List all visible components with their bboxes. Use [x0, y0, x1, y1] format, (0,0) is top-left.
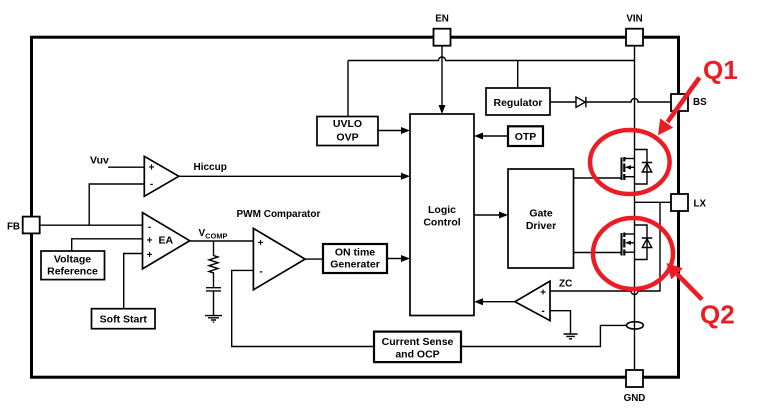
current sensor: [627, 322, 644, 329]
pin GND: [626, 370, 643, 387]
wire LX to ZC with hop over VIN line: [550, 202, 660, 294]
wire VIN main vertical line: [634, 46, 636, 370]
svg-text:Q2: Q2: [700, 300, 735, 330]
svg-text:Vuv: Vuv: [90, 155, 109, 167]
svg-text:-: -: [148, 222, 151, 233]
annotation arrow Q2: [677, 274, 702, 300]
transistor Q2: [622, 225, 653, 260]
wire Current Sense to sensor: [461, 325, 627, 346]
wire LX to switch node: [635, 201, 672, 203]
svg-text:UVLO: UVLO: [333, 118, 362, 130]
block Gate Driver: [508, 169, 574, 268]
pin EN: [434, 29, 451, 46]
pin VIN: [626, 29, 643, 46]
svg-text:Hiccup: Hiccup: [194, 162, 227, 173]
wire capacitor to ground: [213, 291, 215, 316]
svg-text:Current Sense: Current Sense: [382, 336, 454, 348]
svg-text:+: +: [147, 250, 153, 261]
wire Regulator to BS with hop over VIN line: [550, 99, 671, 102]
svg-text:-: -: [150, 179, 153, 190]
block Regulator: [486, 88, 550, 115]
wire Voltage Reference to EA: [72, 239, 143, 251]
block Logic Control: [410, 114, 474, 316]
block Voltage Reference: [41, 251, 105, 280]
svg-text:-: -: [259, 267, 262, 278]
svg-text:and OCP: and OCP: [395, 349, 439, 361]
svg-text:OTP: OTP: [515, 131, 537, 143]
svg-text:ZC: ZC: [559, 279, 572, 290]
wire PWM to ON time Generater: [305, 258, 323, 260]
wire Gate Driver to Q2 gate: [574, 252, 622, 254]
svg-text:BS: BS: [693, 97, 707, 108]
wire rail to Regulator: [517, 61, 519, 89]
op-amp EA: [143, 213, 190, 269]
pin BS: [671, 94, 688, 111]
svg-text:Gate: Gate: [529, 208, 553, 220]
op-amp ZC comparator: [515, 281, 550, 321]
svg-text:Voltage: Voltage: [54, 254, 91, 266]
ground (compensation): [205, 316, 222, 323]
wire ZC to Logic Control: [483, 301, 515, 303]
svg-text:+: +: [540, 287, 546, 298]
svg-text:GND: GND: [624, 393, 646, 404]
wire OTP to Logic Control: [483, 135, 508, 137]
resistor R1: [209, 241, 218, 288]
IC boundary: [32, 37, 679, 377]
transistor Q1: [622, 150, 653, 185]
svg-text:Generater: Generater: [330, 259, 380, 271]
svg-text:EA: EA: [159, 235, 174, 247]
block ON time Generater: [323, 244, 387, 273]
annotation arrow Q1: [668, 78, 700, 123]
wire FB to EA: [40, 224, 143, 226]
wire EA to PWM comparator: [190, 240, 254, 242]
svg-text:COMP: COMP: [205, 232, 227, 241]
diode D1: [576, 97, 586, 107]
wire PWM minus feedback: [232, 270, 374, 346]
wire top rail from VIN with hop over EN line: [348, 57, 635, 60]
wire Soft Start to EA: [124, 254, 143, 310]
op-amp Hiccup comparator: [144, 156, 179, 196]
ground (ZC): [564, 334, 578, 339]
svg-text:Q1: Q1: [703, 55, 738, 85]
wire Logic Control to Gate Driver: [474, 214, 499, 216]
svg-text:Control: Control: [423, 217, 460, 229]
svg-text:PWM Comparator: PWM Comparator: [237, 209, 321, 220]
block Current Sense and OCP: [374, 332, 461, 363]
svg-text:+: +: [147, 235, 153, 246]
svg-text:+: +: [149, 163, 155, 174]
svg-text:ON time: ON time: [335, 247, 375, 259]
svg-text:Reference: Reference: [47, 266, 98, 278]
svg-text:Logic: Logic: [428, 204, 456, 216]
svg-text:LX: LX: [694, 199, 707, 210]
wire UVLO to Logic Control: [378, 130, 401, 132]
svg-text:OVP: OVP: [336, 131, 358, 143]
wire Hiccup to Logic Control: [179, 175, 401, 177]
pin LX: [671, 194, 688, 211]
block OTP: [508, 126, 543, 146]
svg-text:+: +: [258, 238, 264, 249]
wire ON time Generater to Logic Control: [387, 258, 401, 260]
block UVLO OVP: [317, 117, 378, 146]
wire ZC minus to ground: [550, 311, 571, 334]
annotation ellipse Q1: [590, 130, 670, 194]
svg-text:-: -: [541, 306, 544, 317]
svg-text:Regulator: Regulator: [493, 97, 542, 109]
annotation ellipse Q2: [593, 218, 673, 289]
svg-text:VIN: VIN: [626, 14, 642, 25]
capacitor C1: [206, 288, 221, 291]
svg-text:Soft Start: Soft Start: [100, 313, 148, 325]
wire Gate Driver to Q1 gate: [574, 177, 622, 179]
wire Vuv to Hiccup comparator: [108, 166, 144, 168]
svg-text:FB: FB: [7, 222, 20, 233]
wire EN to Logic Control: [441, 46, 443, 106]
block Soft Start: [92, 309, 156, 329]
svg-text:Driver: Driver: [526, 220, 556, 232]
wire rail to UVLO: [347, 61, 349, 117]
svg-text:EN: EN: [435, 14, 449, 25]
wire FB to Hiccup minus input: [89, 184, 144, 225]
pin FB: [23, 217, 40, 234]
